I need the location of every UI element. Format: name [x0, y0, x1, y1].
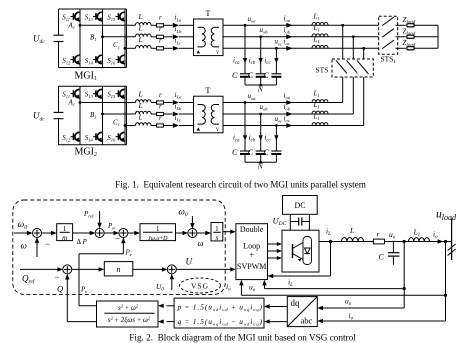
svg-text:VSG: VSG: [191, 281, 209, 290]
svg-text:Fig. 2. Block diagram of the: Fig. 2. Block diagram of the MGI unit ba…: [129, 333, 356, 343]
svg-text:Double: Double: [240, 225, 264, 234]
svg-text:r: r: [377, 230, 380, 238]
svg-text:Q: Q: [57, 284, 63, 294]
svg-text:C: C: [248, 71, 254, 80]
svg-text:STS: STS: [316, 66, 329, 75]
svg-text:−: −: [115, 234, 120, 244]
svg-text:Fig. 1. Equivalent research c: Fig. 1. Equivalent research circuit of t…: [115, 179, 366, 189]
svg-text:Y: Y: [216, 51, 220, 56]
svg-text:MGI1: MGI1: [75, 70, 97, 82]
svg-text:DC: DC: [294, 201, 305, 210]
svg-text:r: r: [159, 25, 162, 33]
svg-text:L: L: [138, 24, 143, 33]
svg-text:dq: dq: [291, 298, 301, 308]
svg-text:SVPWM: SVPWM: [237, 262, 266, 271]
svg-text:L: L: [138, 35, 143, 44]
svg-text:s2 + 2ξωs + ω2: s2 + 2ξωs + ω2: [108, 315, 151, 324]
svg-text:Jω0s+D: Jω0s+D: [148, 235, 168, 242]
svg-text:+: +: [249, 251, 254, 260]
svg-text:C: C: [232, 71, 238, 80]
svg-text:n: n: [117, 265, 121, 274]
svg-text:L: L: [349, 226, 354, 235]
svg-text:C: C: [263, 71, 269, 80]
svg-text:−: −: [55, 272, 60, 282]
svg-text:s: s: [216, 234, 219, 242]
svg-text:N: N: [257, 85, 264, 94]
svg-text:q = 1.5(uoqiod − uodioq): q = 1.5(uoqiod − uodioq): [178, 317, 263, 327]
svg-text:m: m: [62, 234, 67, 242]
svg-text:−: −: [45, 239, 50, 249]
svg-text:ω: ω: [198, 238, 204, 248]
svg-text:MGI2: MGI2: [75, 147, 97, 159]
svg-text:p = 1.5(uodiod + uoqioq): p = 1.5(uodiod + uoqioq): [177, 303, 263, 313]
svg-text:P: P: [82, 238, 88, 246]
svg-text:C: C: [379, 253, 385, 262]
svg-text:r: r: [159, 37, 162, 45]
svg-text:T: T: [206, 9, 211, 18]
svg-text:U: U: [186, 257, 193, 267]
svg-text:Loop: Loop: [243, 241, 260, 250]
svg-text:L: L: [138, 12, 143, 21]
svg-text:r: r: [159, 14, 162, 22]
svg-text:Δ: Δ: [77, 238, 82, 246]
svg-text:abc: abc: [301, 316, 313, 326]
svg-text:ω: ω: [21, 241, 27, 251]
